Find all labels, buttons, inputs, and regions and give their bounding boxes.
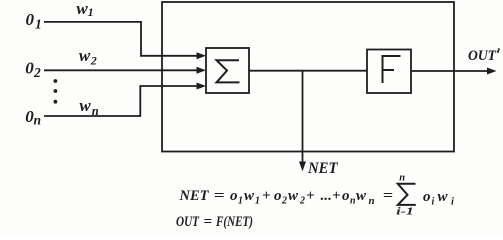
svg-text:o: o bbox=[230, 188, 238, 204]
svg-text:n: n bbox=[399, 172, 405, 183]
svg-text:n: n bbox=[369, 195, 375, 207]
svg-text:i: i bbox=[451, 197, 454, 208]
svg-text:n: n bbox=[34, 113, 42, 128]
svg-text:i-1: i-1 bbox=[396, 206, 414, 217]
svg-text:n: n bbox=[92, 104, 99, 118]
svg-text:NET: NET bbox=[307, 160, 338, 177]
svg-text:o: o bbox=[423, 189, 431, 205]
svg-text:1: 1 bbox=[255, 196, 260, 207]
svg-text:i: i bbox=[432, 197, 435, 208]
svg-text:1: 1 bbox=[35, 16, 42, 31]
svg-text:w: w bbox=[244, 188, 255, 204]
svg-text:1: 1 bbox=[88, 5, 94, 19]
svg-text:+: + bbox=[306, 188, 315, 204]
svg-text:=: = bbox=[204, 214, 213, 230]
svg-text:2: 2 bbox=[33, 65, 41, 80]
svg-text:w: w bbox=[438, 189, 449, 205]
svg-text:0: 0 bbox=[26, 10, 35, 29]
svg-text:o: o bbox=[342, 188, 350, 204]
svg-text:=: = bbox=[214, 188, 225, 204]
svg-text:2: 2 bbox=[90, 54, 97, 68]
svg-text:0: 0 bbox=[25, 58, 34, 77]
svg-text:o: o bbox=[274, 188, 282, 204]
svg-text:w: w bbox=[288, 188, 299, 204]
svg-text:2: 2 bbox=[281, 196, 287, 207]
svg-text:2: 2 bbox=[299, 196, 305, 207]
svg-text:+: + bbox=[262, 188, 271, 204]
svg-text:w: w bbox=[79, 46, 91, 65]
svg-text:1: 1 bbox=[238, 196, 243, 207]
svg-text:=: = bbox=[383, 188, 393, 204]
svg-text:w: w bbox=[79, 96, 91, 115]
svg-text:OUT: OUT bbox=[468, 48, 497, 64]
svg-text:NET: NET bbox=[179, 188, 210, 204]
svg-text:F(NET): F(NET) bbox=[215, 214, 253, 230]
svg-text:...+: ...+ bbox=[321, 188, 341, 204]
svg-text:OUT: OUT bbox=[176, 214, 200, 230]
svg-text:w: w bbox=[356, 188, 367, 204]
svg-text:w: w bbox=[76, 0, 88, 18]
